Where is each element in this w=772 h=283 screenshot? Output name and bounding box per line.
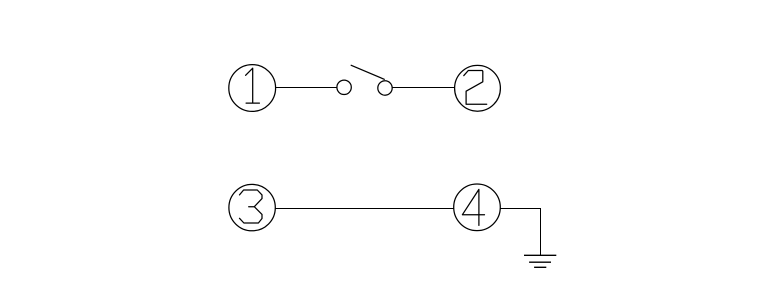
wire node3 to node4 xyxy=(275,208,454,210)
wire switch right contact to node2 xyxy=(392,87,455,89)
node 1 label "1" xyxy=(246,68,260,103)
wire node4 to ground (horizontal + vertical drop) xyxy=(500,209,540,256)
node 4 xyxy=(454,184,501,231)
switch left contact xyxy=(337,80,351,94)
node 3 xyxy=(229,184,275,230)
node 2 label "2" xyxy=(464,71,487,105)
ground xyxy=(524,255,556,267)
node 3 label "3" xyxy=(240,190,263,223)
switch blade (open) xyxy=(351,65,384,79)
switch right contact xyxy=(378,81,392,95)
node 2 xyxy=(455,65,501,111)
wire node1 to switch left contact xyxy=(276,87,337,89)
node 4 label "4" xyxy=(462,189,484,225)
node 1 xyxy=(229,65,276,112)
